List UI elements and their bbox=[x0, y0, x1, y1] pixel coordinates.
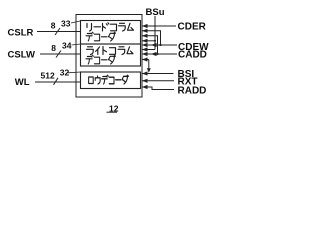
ム bbox=[128, 23, 134, 30]
svg-text:CDER: CDER bbox=[178, 21, 207, 32]
ー bbox=[116, 79, 121, 81]
read column decoder box 33 bbox=[81, 21, 141, 45]
arrow into read dec row3 bbox=[142, 34, 148, 38]
wire BSu vertical bbox=[154, 16, 156, 50]
arrow into row dec BSI bbox=[142, 71, 148, 75]
ダ bbox=[108, 32, 115, 41]
row decoder box 32 bbox=[81, 72, 141, 89]
デ bbox=[102, 75, 109, 84]
wire A4 bbox=[142, 40, 155, 42]
ダ bbox=[122, 75, 128, 84]
arrow into write dec row3 bbox=[142, 52, 148, 56]
wire CDER bbox=[142, 25, 176, 27]
svg-text:CSLR: CSLR bbox=[8, 27, 34, 38]
wire CADD bbox=[142, 53, 177, 55]
arrow into row dec RXT bbox=[142, 79, 148, 83]
arrow into write dec row2 bbox=[142, 47, 148, 51]
junction dot CDEW/A2 bbox=[159, 44, 161, 46]
decoder block 12 outer box bbox=[76, 15, 142, 98]
コ bbox=[111, 24, 117, 31]
ラ bbox=[118, 47, 125, 55]
ー bbox=[101, 36, 107, 38]
svg-text:RADD: RADD bbox=[178, 85, 207, 96]
junction blob BSu/CDER crossing bbox=[154, 25, 156, 27]
wire branch down to BSI bbox=[148, 60, 150, 70]
svg-text:512: 512 bbox=[41, 71, 55, 81]
svg-text:WL: WL bbox=[15, 77, 30, 88]
ー bbox=[101, 59, 107, 61]
wire RADD bbox=[142, 87, 174, 90]
junction dot CADD/A3 bbox=[156, 53, 158, 55]
down arrow onto BSI wire bbox=[147, 68, 151, 72]
write column decoder box 34 bbox=[81, 44, 141, 66]
arrow into read dec row2 bbox=[142, 29, 148, 33]
leader 34 bbox=[72, 44, 81, 45]
wire WL bbox=[35, 81, 81, 83]
コ bbox=[110, 48, 116, 55]
katakana text: デコーダ (decoder) line2 of box 34 bbox=[86, 55, 115, 64]
wire BSI bbox=[142, 73, 174, 75]
arrow into write dec row1 bbox=[142, 43, 148, 47]
katakana text: ライトコラム (write column) bbox=[87, 47, 134, 55]
arrow into row dec RADD bbox=[142, 85, 148, 89]
junction dot BSu/A4 bbox=[154, 40, 156, 42]
wire B2 bbox=[142, 49, 155, 51]
イ bbox=[96, 47, 100, 55]
katakana text: ロウデコーダ (row decoder) bbox=[89, 75, 129, 84]
arrow into write dec row4 bbox=[142, 57, 148, 61]
コ bbox=[109, 77, 114, 84]
bus slash CSLW bbox=[56, 51, 61, 58]
svg-text:32: 32 bbox=[60, 67, 70, 77]
arrow into read dec row4 bbox=[142, 39, 148, 43]
katakana text: デコーダ (decoder) line2 of box 33 bbox=[86, 32, 115, 41]
ー bbox=[94, 26, 101, 28]
wire CDEW bbox=[142, 44, 177, 46]
svg-text:BSu: BSu bbox=[146, 7, 165, 18]
svg-text:34: 34 bbox=[62, 41, 72, 51]
svg-text:CADD: CADD bbox=[178, 50, 207, 61]
wire RXT bbox=[142, 80, 174, 82]
ロ bbox=[89, 77, 94, 84]
svg-text:8: 8 bbox=[51, 21, 56, 31]
デ bbox=[86, 32, 93, 41]
wire CSLR bbox=[37, 31, 81, 33]
svg-text:33: 33 bbox=[61, 18, 71, 28]
wire CSLW bbox=[40, 53, 81, 55]
ド bbox=[103, 23, 109, 31]
コ bbox=[94, 57, 99, 64]
arrow into read dec row1 bbox=[142, 24, 148, 28]
mid arrow on CDEW wire bbox=[151, 43, 157, 47]
ム bbox=[127, 47, 133, 54]
ラ bbox=[87, 47, 94, 55]
wire B4 bbox=[142, 59, 149, 61]
ウ bbox=[95, 76, 100, 84]
リ bbox=[87, 24, 92, 32]
ダ bbox=[108, 55, 115, 64]
デ bbox=[86, 55, 93, 64]
katakana text: リードコラム (read column) bbox=[86, 23, 134, 84]
wire A3 bbox=[142, 36, 158, 54]
bus slash CSLR bbox=[55, 28, 60, 35]
leader 32 bbox=[68, 71, 81, 74]
svg-text:8: 8 bbox=[51, 43, 56, 53]
ラ bbox=[119, 23, 126, 31]
svg-text:CSLW: CSLW bbox=[8, 50, 35, 61]
コ bbox=[94, 34, 99, 41]
wire A2 bbox=[142, 31, 161, 45]
bus slash WL bbox=[54, 78, 59, 85]
leader 33 bbox=[71, 21, 80, 23]
ト bbox=[103, 47, 107, 55]
mid arrow on CADD wire bbox=[151, 52, 157, 56]
